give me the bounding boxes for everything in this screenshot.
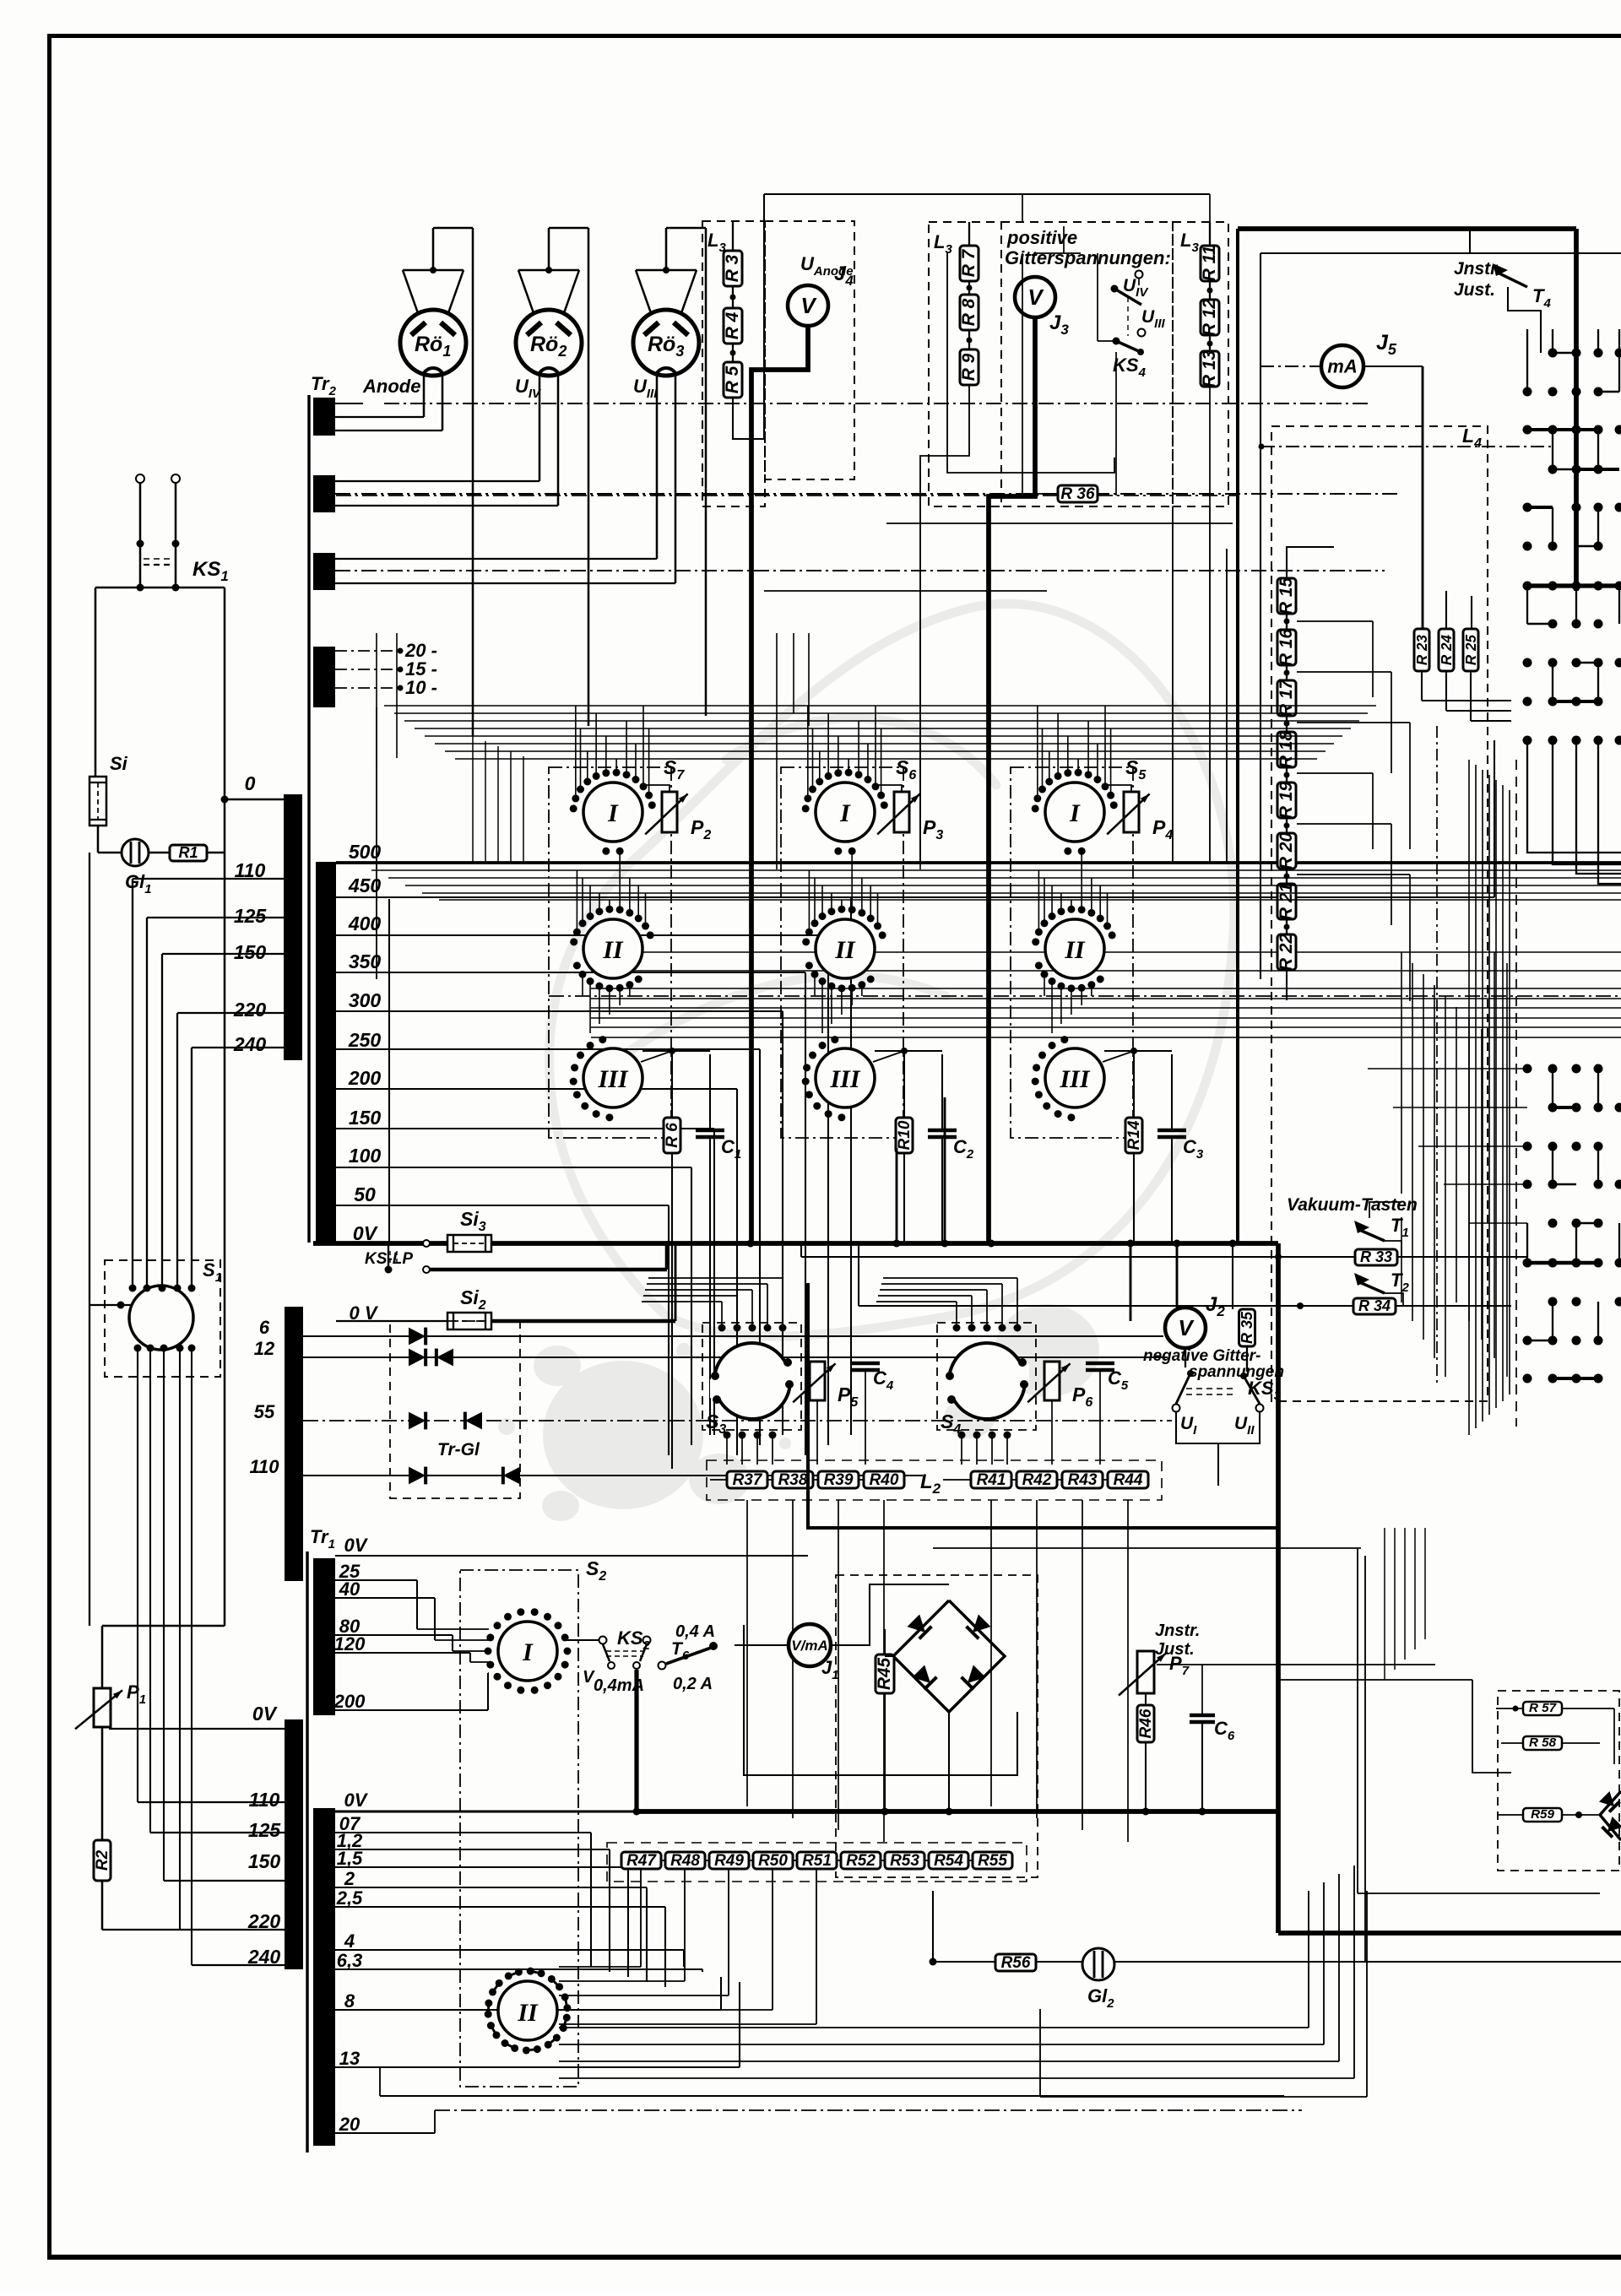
svg-text:II: II (834, 936, 856, 964)
svg-text:Vakuum-Tasten: Vakuum-Tasten (1287, 1195, 1418, 1215)
svg-text:240: 240 (233, 1033, 267, 1055)
svg-text:R 8: R 8 (959, 298, 979, 326)
svg-text:II: II (602, 936, 624, 964)
svg-text:150: 150 (248, 1850, 281, 1872)
svg-text:R 33: R 33 (1360, 1248, 1392, 1265)
svg-text:R 36: R 36 (1060, 485, 1095, 503)
svg-text:R 25: R 25 (1463, 634, 1479, 665)
svg-text:R 23: R 23 (1414, 634, 1430, 665)
svg-text:R 15: R 15 (1277, 577, 1296, 615)
svg-text:positive: positive (1006, 227, 1077, 248)
svg-text:0: 0 (245, 772, 256, 794)
svg-text:2: 2 (344, 1868, 355, 1889)
svg-text:55: 55 (254, 1401, 275, 1422)
svg-text:R 21: R 21 (1277, 883, 1296, 920)
svg-text:R43: R43 (1068, 1471, 1098, 1489)
svg-text:III: III (597, 1065, 628, 1093)
svg-text:300: 300 (349, 989, 382, 1011)
svg-text:mA: mA (1327, 356, 1357, 377)
svg-text:R59: R59 (1531, 1807, 1554, 1822)
svg-text:V/mA: V/mA (791, 1638, 827, 1654)
svg-text:6: 6 (259, 1317, 270, 1338)
svg-text:I: I (522, 1638, 534, 1666)
svg-text:negative Gitter-: negative Gitter- (1143, 1347, 1260, 1365)
svg-text:13: 13 (339, 2048, 360, 2069)
svg-text:Si: Si (110, 753, 128, 774)
svg-text:R54: R54 (934, 1852, 963, 1870)
svg-text:V: V (1027, 284, 1044, 310)
svg-text:R10: R10 (896, 1120, 914, 1150)
svg-text:Jnstr.: Jnstr. (1155, 1622, 1200, 1640)
svg-text:R47: R47 (626, 1852, 657, 1870)
svg-text:10 -: 10 - (405, 677, 437, 698)
svg-text:II: II (1064, 936, 1086, 964)
svg-text:0,4 A: 0,4 A (675, 1622, 715, 1641)
svg-text:R 24: R 24 (1439, 634, 1455, 665)
svg-text:0V: 0V (344, 1790, 369, 1811)
svg-text:Jnstr.: Jnstr. (1454, 259, 1501, 279)
svg-text:8: 8 (344, 1990, 355, 2012)
svg-text:R 20: R 20 (1277, 832, 1296, 870)
svg-text:1,5: 1,5 (337, 1848, 363, 1869)
svg-text:12: 12 (254, 1338, 275, 1359)
svg-text:R51: R51 (802, 1852, 832, 1870)
svg-text:KS-LP: KS-LP (365, 1250, 413, 1268)
svg-text:4: 4 (344, 1930, 355, 1952)
svg-text:6,3: 6,3 (337, 1950, 363, 1971)
svg-text:200: 200 (348, 1067, 382, 1089)
svg-text:R37: R37 (733, 1471, 763, 1489)
svg-text:Gitterspannungen:: Gitterspannungen: (1005, 247, 1171, 268)
svg-text:R46: R46 (1137, 1708, 1155, 1738)
svg-text:Tr-Gl: Tr-Gl (437, 1440, 480, 1459)
svg-text:I: I (607, 799, 619, 827)
svg-text:R1: R1 (178, 844, 198, 861)
svg-text:110: 110 (249, 1456, 279, 1477)
svg-text:R 16: R 16 (1277, 629, 1296, 667)
svg-text:I: I (1069, 799, 1081, 827)
svg-text:R 22: R 22 (1277, 934, 1296, 972)
svg-text:R40: R40 (870, 1471, 899, 1489)
svg-text:R 19: R 19 (1277, 782, 1296, 820)
svg-text:R39: R39 (824, 1471, 854, 1489)
svg-text:110: 110 (249, 1789, 280, 1811)
svg-text:I: I (839, 799, 851, 827)
svg-text:R 4: R 4 (723, 311, 742, 339)
svg-text:0V: 0V (252, 1703, 278, 1725)
svg-text:0V: 0V (353, 1222, 378, 1244)
svg-text:150: 150 (349, 1107, 382, 1129)
svg-text:R45: R45 (875, 1657, 894, 1690)
svg-text:220: 220 (233, 999, 267, 1021)
svg-text:II: II (517, 1999, 539, 2027)
svg-text:R53: R53 (890, 1852, 919, 1870)
svg-text:R 13: R 13 (1200, 350, 1219, 388)
svg-text:III: III (1059, 1065, 1090, 1093)
svg-text:R 7: R 7 (959, 248, 979, 277)
svg-text:150: 150 (234, 941, 267, 963)
svg-text:R55: R55 (978, 1852, 1007, 1870)
svg-text:V: V (800, 293, 817, 318)
svg-text:50: 50 (354, 1183, 376, 1205)
svg-text:R56: R56 (1001, 1954, 1031, 1972)
svg-text:0,2 A: 0,2 A (673, 1675, 713, 1693)
svg-text:R 58: R 58 (1529, 1736, 1557, 1750)
svg-text:R 9: R 9 (959, 353, 979, 381)
svg-text:20: 20 (339, 2114, 361, 2135)
svg-text:100: 100 (349, 1145, 382, 1167)
svg-text:R42: R42 (1022, 1471, 1052, 1489)
svg-text:R 17: R 17 (1277, 679, 1296, 717)
svg-text:R 6: R 6 (664, 1123, 681, 1148)
svg-text:125: 125 (234, 905, 268, 927)
svg-text:R 35: R 35 (1239, 1311, 1255, 1344)
svg-text:R 12: R 12 (1200, 299, 1219, 337)
svg-text:III: III (829, 1065, 860, 1093)
svg-text:120: 120 (334, 1633, 366, 1654)
svg-text:R 11: R 11 (1200, 246, 1219, 282)
svg-text:V: V (1178, 1315, 1195, 1340)
svg-text:R49: R49 (714, 1852, 744, 1870)
svg-text:R50: R50 (758, 1852, 788, 1870)
svg-text:R 5: R 5 (723, 366, 742, 393)
svg-text:200: 200 (333, 1691, 366, 1712)
svg-text:Just.: Just. (1454, 280, 1495, 300)
svg-text:R44: R44 (1114, 1471, 1143, 1489)
svg-text:R 3: R 3 (723, 254, 742, 282)
svg-text:R2: R2 (94, 1849, 111, 1871)
svg-text:R 57: R 57 (1529, 1701, 1558, 1715)
svg-text:R52: R52 (846, 1852, 876, 1870)
svg-text:40: 40 (339, 1578, 361, 1600)
svg-text:125: 125 (248, 1819, 282, 1841)
svg-text:R38: R38 (778, 1471, 808, 1489)
svg-text:R 34: R 34 (1358, 1297, 1391, 1314)
svg-text:R48: R48 (670, 1852, 700, 1870)
svg-text:Anode: Anode (362, 376, 420, 397)
svg-text:R14: R14 (1125, 1120, 1143, 1150)
svg-text:0V: 0V (344, 1535, 369, 1556)
svg-text:2,5: 2,5 (336, 1887, 363, 1909)
svg-text:250: 250 (348, 1029, 382, 1051)
svg-text:R41: R41 (977, 1471, 1006, 1489)
